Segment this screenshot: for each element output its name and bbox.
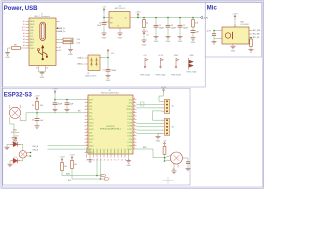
ground left of mic xyxy=(212,42,217,45)
wire rail to C3 xyxy=(155,17,157,19)
svg-text:1uF: 1uF xyxy=(40,120,43,122)
svg-text:ESP32-S3: ESP32-S3 xyxy=(4,92,33,98)
capacitor C4 100nF xyxy=(166,25,171,27)
ground below mic xyxy=(231,46,236,49)
resistor R3 1k xyxy=(143,20,146,28)
wire LS1 to ground xyxy=(173,168,175,172)
svg-text:USB_C_Receptacle: USB_C_Receptacle xyxy=(34,15,50,18)
capacitor C8 1uF xyxy=(35,119,40,121)
svg-text:PWR_FLAG: PWR_FLAG xyxy=(140,73,150,76)
svg-text:10uF: 10uF xyxy=(97,25,101,27)
D2 output wires with labels xyxy=(27,152,31,154)
wire button to EN xyxy=(20,113,26,121)
svg-text:B8: B8 xyxy=(23,42,25,44)
svg-text:ESP32-S3-WROOM-1: ESP32-S3-WROOM-1 xyxy=(100,129,122,131)
ground for shield xyxy=(5,53,10,56)
svg-text:1uF: 1uF xyxy=(196,32,199,34)
ground below U3 xyxy=(118,33,123,36)
U3 input pins xyxy=(106,17,110,19)
svg-text:PWR_FLAG: PWR_FLAG xyxy=(156,73,166,76)
svg-text:S1: S1 xyxy=(36,68,38,70)
svg-text:28: 28 xyxy=(121,159,123,161)
ground below C2 xyxy=(102,33,107,36)
svg-text:LED_A: LED_A xyxy=(33,145,39,148)
connector J3 body xyxy=(165,118,170,135)
global label SCL xyxy=(105,178,110,180)
U2 internal diodes xyxy=(91,58,98,67)
svg-text:GND: GND xyxy=(231,51,236,53)
power +3.3V header J2 xyxy=(163,89,165,93)
svg-text:R6: R6 xyxy=(32,105,34,107)
svg-text:23: 23 xyxy=(104,159,106,161)
ferrite bead FB1 xyxy=(12,47,21,50)
module U1 right pins xyxy=(133,99,137,101)
ground below SW1 xyxy=(12,138,17,141)
wire EN junction to button xyxy=(26,112,37,114)
ground below module left xyxy=(89,158,91,160)
svg-text:+3.3V: +3.3V xyxy=(206,31,212,33)
capacitor C10 10uF xyxy=(66,100,68,103)
svg-text:C8: C8 xyxy=(32,119,34,121)
ground below USB connector xyxy=(40,73,45,76)
resistor pullup SDA 10k xyxy=(61,163,64,171)
svg-text:RXD0: RXD0 xyxy=(127,109,133,111)
power +3.3V module supply xyxy=(54,90,56,94)
wire R4 to C6 xyxy=(192,27,194,31)
USB trident logo xyxy=(39,46,47,58)
wire SCL pullup to module xyxy=(72,169,101,180)
mic right pins with net labels xyxy=(249,30,252,32)
svg-text:5.1k: 5.1k xyxy=(77,43,80,45)
capacitor C9 100nF xyxy=(54,100,56,103)
power +3.3V SCL pullup xyxy=(71,156,73,160)
svg-text:GND: GND xyxy=(68,54,73,56)
wire rail to C4 xyxy=(167,17,169,19)
wire LED nets to module xyxy=(48,145,85,147)
svg-text:ESP32-S3-WROOM-1: ESP32-S3-WROOM-1 xyxy=(101,93,119,95)
svg-text:+3.3V: +3.3V xyxy=(59,157,65,159)
ground below C8 xyxy=(35,126,40,129)
svg-text:TXD0: TXD0 xyxy=(127,106,133,108)
svg-text:100nF: 100nF xyxy=(58,104,63,106)
wire shield pins to ground xyxy=(39,70,46,72)
J1 shield pins bottom xyxy=(38,66,40,70)
ground below module right bottom xyxy=(128,158,130,161)
resistor R4 10k xyxy=(192,20,195,28)
svg-text:GND: GND xyxy=(156,141,161,143)
svg-text:GND: GND xyxy=(106,80,111,82)
svg-text:5.1k: 5.1k xyxy=(77,39,80,41)
svg-text:27: 27 xyxy=(118,159,120,161)
svg-text:GND: GND xyxy=(40,77,45,79)
svg-text:USB_D-: USB_D- xyxy=(78,58,85,60)
power +5V speaker xyxy=(164,142,166,146)
wire +3.3V to mic xyxy=(234,19,236,27)
LED D1 xyxy=(143,30,148,33)
ground below R8 xyxy=(8,164,13,167)
ground below R5 xyxy=(249,50,254,53)
wire +3.3V to module 3V3 pin xyxy=(54,95,56,100)
capacitor C2 10uF xyxy=(102,22,107,24)
svg-text:25: 25 xyxy=(111,159,113,161)
ground below D1 xyxy=(142,40,147,43)
svg-text:+3.3V: +3.3V xyxy=(13,135,19,137)
wire rail to R3 xyxy=(143,17,145,19)
U2 VBUS pin wire to +5V and C1 xyxy=(100,57,103,59)
wire R6 to EN junction xyxy=(36,109,38,113)
capacitor C7 at mic xyxy=(213,31,215,34)
ESD protection U2 USBLC6-2SC6 body xyxy=(88,55,100,71)
svg-text:B12: B12 xyxy=(22,30,25,32)
svg-text:10k: 10k xyxy=(195,23,198,25)
svg-text:GND: GND xyxy=(126,165,131,167)
ground left of R7 xyxy=(5,147,10,150)
USB receptacle pill graphic xyxy=(40,22,46,40)
ground below LS1 xyxy=(172,171,177,174)
svg-text:LED_B: LED_B xyxy=(33,149,39,151)
wire +3.3V R7 xyxy=(15,141,17,143)
svg-text:USB_D-: USB_D- xyxy=(59,28,66,30)
+3.3V net label at rail end xyxy=(201,16,203,19)
wire D2 to R8 xyxy=(21,158,23,161)
ground below C11 xyxy=(186,168,191,171)
svg-text:Power, USB: Power, USB xyxy=(4,6,38,12)
svg-text:S2: S2 xyxy=(46,68,48,70)
J1 D- pin and net label USB_D- xyxy=(56,27,60,29)
J1 CC2 pin xyxy=(56,42,60,44)
LED D2 circle xyxy=(19,151,26,158)
svg-text:VBUS: VBUS xyxy=(30,21,34,23)
svg-text:USB_D+: USB_D+ xyxy=(59,31,66,33)
U3 ground pin xyxy=(119,28,121,31)
svg-text:100nF: 100nF xyxy=(159,27,164,29)
svg-text:C1: C1 xyxy=(103,70,105,72)
svg-text:GND: GND xyxy=(5,57,10,59)
wire J1 shield to FB1 xyxy=(26,47,30,49)
small loop near module pin xyxy=(141,102,145,106)
J1 SBU pins xyxy=(56,47,59,49)
svg-text:MIC_SD: MIC_SD xyxy=(253,37,260,39)
microphone MK1 body xyxy=(222,27,249,44)
ground below C3 xyxy=(154,37,159,40)
+3.3V output rail wire xyxy=(134,17,201,19)
svg-text:SW_Push: SW_Push xyxy=(11,132,19,134)
svg-text:100nF: 100nF xyxy=(183,27,188,29)
svg-text:CC2: CC2 xyxy=(30,36,33,38)
page border inner xyxy=(2,2,262,187)
svg-text:+3.3V: +3.3V xyxy=(232,13,238,15)
capacitor C11 xyxy=(186,162,190,164)
svg-text:+3.3V: +3.3V xyxy=(34,95,40,97)
wire R3 to LED D1 xyxy=(143,28,145,31)
svg-text:+3.3V: +3.3V xyxy=(52,89,58,91)
mic left pin wires xyxy=(219,30,223,32)
LS1 right pin to C11 xyxy=(182,157,186,159)
wire R9 to speaker node xyxy=(164,154,166,161)
U3 output pin xyxy=(130,17,134,19)
resistor R5 pulldown at mic xyxy=(250,37,252,39)
svg-text:10k: 10k xyxy=(40,105,43,107)
LS1 bottom pins xyxy=(173,164,175,168)
svg-text:S2: S2 xyxy=(59,50,61,52)
svg-text:S1: S1 xyxy=(59,47,61,49)
ground below C6 xyxy=(191,38,196,41)
svg-text:GND: GND xyxy=(189,55,194,57)
wires node to speaker pins xyxy=(165,156,171,158)
capacitor C6 1uF xyxy=(191,31,196,33)
power +3.3V mic xyxy=(234,15,236,19)
svg-text:ICS-43434: ICS-43434 xyxy=(241,24,249,26)
section box Power USB xyxy=(3,3,205,87)
svg-text:B5: B5 xyxy=(23,36,25,38)
wires module to J2 xyxy=(137,104,162,106)
speaker LS1 xyxy=(170,152,182,164)
wire module to speaker node xyxy=(137,149,165,158)
wire FB1 to ground xyxy=(8,48,12,53)
wire VIN rail xyxy=(104,18,106,23)
svg-text:U1: U1 xyxy=(109,90,111,92)
svg-text:GND: GND xyxy=(166,41,171,43)
svg-text:+3.3V: +3.3V xyxy=(135,12,141,14)
svg-text:10uF: 10uF xyxy=(70,104,74,106)
wire rail to C5 xyxy=(179,17,181,19)
svg-text:GND: GND xyxy=(142,44,147,46)
svg-text:J2: J2 xyxy=(172,105,174,107)
mic ground pin xyxy=(232,44,234,46)
crosshair marker xyxy=(163,177,174,184)
wires module to J3 xyxy=(137,123,162,125)
svg-text:USB_D+: USB_D+ xyxy=(77,64,84,66)
svg-text:+3.3V: +3.3V xyxy=(69,155,75,157)
module U1 left pins xyxy=(85,99,89,101)
svg-text:SW1: SW1 xyxy=(13,130,17,132)
diode D3 xyxy=(11,140,21,147)
capacitor C1 100nF xyxy=(106,69,111,71)
wire LED to ground xyxy=(143,34,145,40)
mic VDD pin xyxy=(234,24,236,27)
capacitor C5 100nF xyxy=(178,25,183,27)
section box ESP32-S3 xyxy=(3,88,190,185)
svg-text:Mic: Mic xyxy=(207,5,218,11)
svg-text:10k: 10k xyxy=(64,166,67,168)
wire to C2 xyxy=(103,21,105,23)
power +3.3V SDA pullup xyxy=(61,158,63,162)
resistor R1 5.1k on CC1 xyxy=(63,38,73,40)
wire R7 to D2 xyxy=(21,144,23,150)
push button SW1 xyxy=(9,107,20,118)
wire rail to R4 xyxy=(192,17,194,19)
connector J1 body xyxy=(29,18,56,66)
svg-text:GND: GND xyxy=(102,37,107,39)
svg-text:D1: D1 xyxy=(147,35,149,37)
svg-text:1k: 1k xyxy=(146,23,148,25)
J1 D+ pin and net label USB_D+ xyxy=(56,30,60,32)
J1 VBUS pin stub xyxy=(56,21,60,23)
svg-text:AP2112K-3.3: AP2112K-3.3 xyxy=(115,7,126,10)
wire R8 to ground xyxy=(10,161,11,164)
wire junction to C8 xyxy=(36,113,38,119)
module U1 body xyxy=(88,95,133,154)
ground CC pulldowns xyxy=(68,50,73,53)
svg-text:+3.3V: +3.3V xyxy=(161,87,167,89)
svg-text:GND: GND xyxy=(118,37,123,39)
svg-text:SBU2: SBU2 xyxy=(30,42,34,44)
power +5V at ESD xyxy=(107,49,109,53)
svg-text:ESP32-S3: ESP32-S3 xyxy=(107,126,115,128)
svg-text:GND: GND xyxy=(174,55,179,57)
svg-text:26: 26 xyxy=(114,159,116,161)
wire SDA pullup to module xyxy=(62,171,97,176)
U2 left pins with net labels xyxy=(85,57,89,59)
wire CC resistors to ground xyxy=(71,38,74,40)
svg-text:FB1: FB1 xyxy=(14,45,17,47)
power +5V at regulator input xyxy=(103,8,105,12)
resistor pullup SCL 10k xyxy=(71,161,74,169)
svg-text:DP2: DP2 xyxy=(30,45,33,47)
ground below C5 xyxy=(178,37,183,40)
wire J2 pin4 xyxy=(153,110,162,112)
svg-text:B1: B1 xyxy=(23,24,25,26)
svg-text:24: 24 xyxy=(107,159,109,161)
global label SDA xyxy=(101,174,106,176)
section box Mic xyxy=(205,3,262,57)
J1 left pins xyxy=(26,21,30,23)
svg-text:+3.3V: +3.3V xyxy=(158,55,164,57)
ground below C10 xyxy=(65,109,70,112)
ground below C9 xyxy=(53,109,58,112)
svg-text:20: 20 xyxy=(93,159,95,161)
svg-text:SCL: SCL xyxy=(68,180,71,182)
regulator U3 body xyxy=(109,12,130,29)
wire button to ground xyxy=(10,121,14,124)
resistor R2 5.1k on CC2 xyxy=(63,41,73,43)
SW1 pins xyxy=(9,105,11,108)
svg-text:USBLC6-2SC6: USBLC6-2SC6 xyxy=(85,76,96,78)
ground below C1 xyxy=(106,76,111,79)
svg-text:100nF: 100nF xyxy=(111,70,116,72)
svg-text:100nF: 100nF xyxy=(171,27,176,29)
svg-text:GND: GND xyxy=(191,42,196,44)
svg-text:10k: 10k xyxy=(74,164,77,166)
module U1 bottom pins xyxy=(86,154,88,158)
wire EN to module xyxy=(37,112,85,114)
mic symbol graphic xyxy=(225,33,230,38)
wire +3.3V to J2 pin1 xyxy=(159,93,164,102)
svg-text:MK1: MK1 xyxy=(241,21,245,23)
capacitor C3 100nF xyxy=(154,25,159,27)
svg-text:J3: J3 xyxy=(172,126,174,128)
svg-text:CC1: CC1 xyxy=(30,33,33,35)
svg-text:GND: GND xyxy=(178,41,183,43)
power symbol +3.3V on rail xyxy=(137,13,139,17)
svg-text:VBUS: VBUS xyxy=(30,24,34,26)
svg-text:+3.3V: +3.3V xyxy=(203,18,209,20)
page border outer xyxy=(1,1,264,188)
svg-text:SBU1: SBU1 xyxy=(30,39,34,41)
mic select pin to ground xyxy=(219,38,223,40)
svg-text:MIC_WS: MIC_WS xyxy=(253,34,261,36)
wire junction to capacitor C1 xyxy=(107,58,109,70)
diode D4 xyxy=(11,157,21,164)
resistor R9 speaker xyxy=(163,146,166,154)
svg-text:PWR_FLAG: PWR_FLAG xyxy=(187,71,197,74)
ground below J3 xyxy=(158,133,162,136)
svg-text:PWR_FLAG: PWR_FLAG xyxy=(171,73,181,76)
wire J3 pin1 xyxy=(153,119,165,121)
connector J2 body xyxy=(165,99,170,113)
power +3.3V EN pullup xyxy=(36,97,38,101)
power +3.3V LED supply xyxy=(15,137,17,141)
svg-text:GND: GND xyxy=(154,41,159,43)
resistor R6 10k EN pullup xyxy=(36,101,39,109)
svg-text:MIC_SCK: MIC_SCK xyxy=(253,30,261,32)
J1 CC1 pin xyxy=(56,38,60,40)
wire R7 to ground xyxy=(7,144,11,147)
ground below C4 xyxy=(166,37,171,40)
